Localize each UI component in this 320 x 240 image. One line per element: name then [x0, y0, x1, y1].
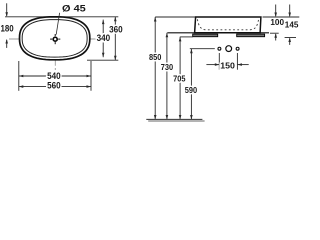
dimension 560 — [19, 79, 91, 90]
extension line bottom right — [87, 59, 118, 61]
counter section right bar — [237, 34, 265, 37]
dimension 180 — [1, 3, 14, 48]
svg-text:180: 180 — [1, 23, 14, 34]
dimension 100 — [270, 5, 284, 41]
dimension 540 — [19, 61, 91, 91]
extension line top — [5, 16, 118, 18]
drain hole tick marks — [50, 34, 60, 44]
svg-text:590: 590 — [185, 85, 198, 95]
svg-text:850: 850 — [149, 52, 162, 62]
drain hole — [53, 37, 57, 41]
basin inner rim (oval) — [22, 20, 87, 58]
dimension 360 — [109, 17, 123, 60]
svg-text:145: 145 — [285, 20, 299, 30]
counter section left bar — [193, 34, 218, 37]
svg-text:560: 560 — [47, 79, 61, 90]
fixing hole left — [218, 47, 221, 50]
fixing hole right — [236, 47, 239, 50]
rim extension line left — [155, 16, 195, 18]
extension line at fixing holes level — [190, 48, 215, 50]
floor shadow band — [148, 120, 204, 122]
svg-text:Ø 45: Ø 45 — [62, 3, 86, 14]
svg-text:360: 360 — [109, 24, 123, 35]
dimension 340 — [97, 20, 111, 58]
hidden bowl contour (dashed) — [197, 19, 258, 30]
dimension 730 — [161, 33, 174, 120]
counter top line — [167, 32, 269, 34]
basin outer rim (oval) — [20, 17, 90, 60]
dimension 150 — [206, 53, 248, 71]
fixing hole center — [226, 46, 232, 52]
floor line — [146, 118, 202, 120]
rim extension line right — [263, 16, 300, 18]
svg-text:100: 100 — [270, 17, 284, 27]
svg-text:705: 705 — [173, 74, 186, 84]
leader line for diameter label — [56, 13, 59, 35]
dimension 145 — [285, 5, 299, 45]
dimension 590 — [185, 49, 198, 120]
grey horizontal centerline — [9, 38, 50, 40]
extension line for 705 — [180, 36, 193, 38]
dimension 850 — [149, 17, 162, 120]
basin profile — [195, 17, 261, 33]
dimension 705 — [173, 37, 186, 120]
svg-text:730: 730 — [161, 62, 174, 72]
svg-text:150: 150 — [220, 61, 235, 71]
grey vertical centerline — [54, 46, 56, 70]
